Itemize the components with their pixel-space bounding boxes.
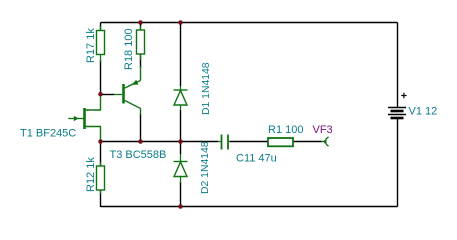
wire R1 to VF3 terminal — [293, 141, 322, 143]
svg-text:V1 12: V1 12 — [409, 106, 438, 118]
transistor T1 (JFET) — [68, 95, 100, 142]
wire T3 collector down to middle line — [140, 114, 142, 142]
junction node A (R17/T1 drain/T3 base) — [98, 92, 103, 97]
junction node D1 top — [178, 20, 183, 25]
wire D2 top lead — [180, 142, 182, 155]
wire top rail — [101, 22, 398, 24]
T3 emitter arrow — [132, 80, 139, 85]
T1 gate arrow — [74, 116, 79, 122]
wire C11 to R1 — [230, 141, 268, 143]
svg-text:T1 BF245C: T1 BF245C — [20, 128, 76, 140]
svg-text:R18 100: R18 100 — [123, 28, 135, 70]
svg-text:R17 1k: R17 1k — [85, 28, 97, 63]
capacitor C11 — [218, 135, 230, 150]
svg-text:R12 1k: R12 1k — [85, 157, 97, 192]
wire D1 bottom lead — [180, 110, 182, 142]
svg-text:R1 100: R1 100 — [268, 124, 303, 136]
junction node T3 collector — [138, 139, 143, 144]
wire R17 bottom to node A — [100, 60, 102, 95]
battery plus sign — [401, 93, 406, 98]
junction node D2 bottom — [178, 204, 183, 209]
wire R18 top lead — [140, 23, 142, 31]
svg-text:D2 1N4148: D2 1N4148 — [200, 141, 211, 194]
wire bottom rail — [101, 206, 398, 208]
wire R18 bottom to T3 emitter — [140, 54, 142, 68]
svg-text:D1 1N4148: D1 1N4148 — [201, 62, 212, 115]
battery V1 — [388, 108, 406, 119]
transistor T3 (PNP) — [114, 66, 141, 115]
wire middle line — [101, 141, 219, 143]
wire right vertical upper (to battery +) — [397, 23, 399, 108]
wire D1 top lead — [180, 23, 182, 87]
svg-text:T3 BC558B: T3 BC558B — [110, 149, 167, 161]
resistor R1 — [268, 138, 293, 146]
resistor R18 — [137, 26, 145, 60]
wire right vertical lower (battery - to bottom rail) — [397, 118, 399, 207]
resistor R17 — [97, 26, 105, 62]
terminal VF3 — [322, 137, 329, 146]
junction node R18 top — [138, 20, 143, 25]
svg-text:VF3: VF3 — [313, 124, 333, 136]
wire node A to T3 base — [101, 94, 115, 96]
wire R17 top lead — [100, 23, 102, 31]
wire bottom rail to R12 — [100, 190, 102, 207]
diode D2 — [174, 154, 188, 183]
svg-text:C11 47u: C11 47u — [236, 153, 277, 165]
resistor R12 — [97, 162, 105, 194]
wire D2 bottom lead — [180, 182, 182, 207]
diode D1 — [174, 86, 188, 110]
junction node D1/D2 middle — [178, 139, 183, 144]
junction node T1 source / R12 — [98, 139, 103, 144]
wire R12 top to middle node — [100, 142, 102, 167]
